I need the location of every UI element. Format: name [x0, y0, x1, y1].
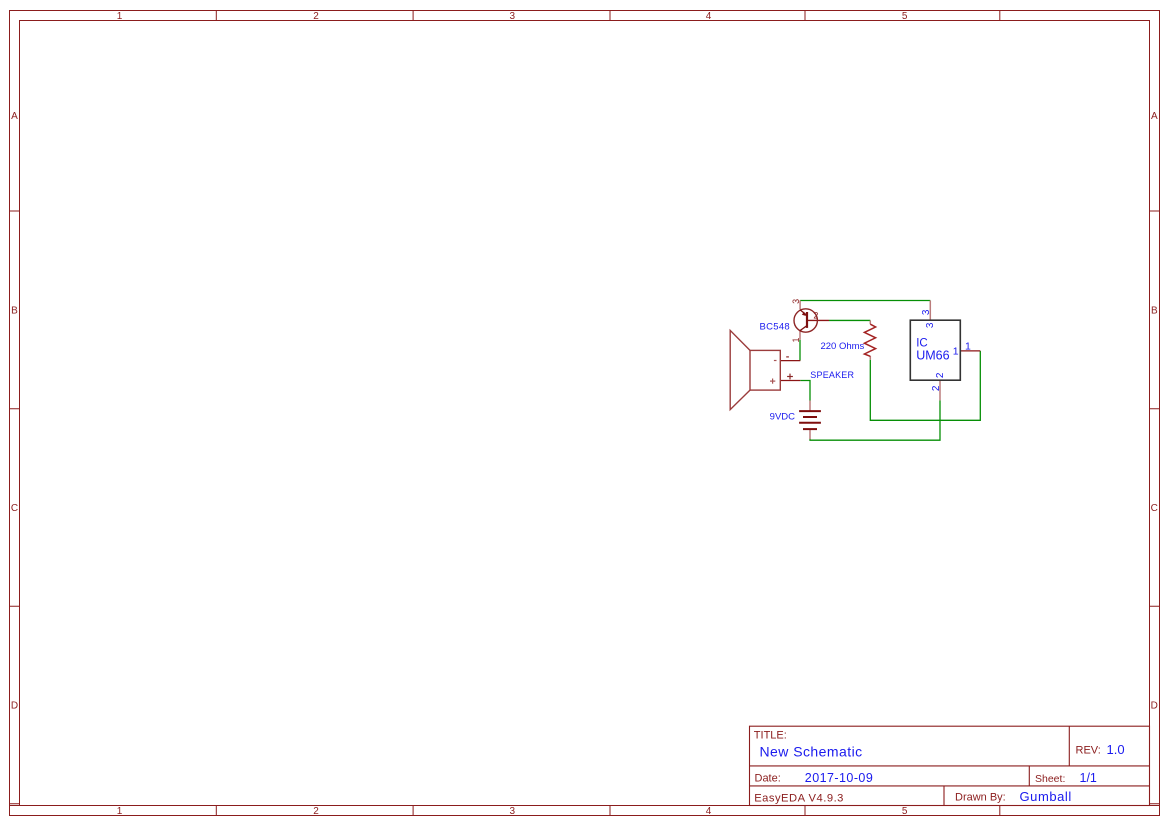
svg-text:1: 1 [117, 806, 123, 817]
svg-text:TITLE:: TITLE: [754, 730, 787, 742]
svg-text:1: 1 [791, 337, 801, 342]
svg-text:1: 1 [953, 345, 959, 357]
svg-text:Sheet:: Sheet: [1035, 773, 1065, 785]
svg-text:UM66: UM66 [916, 349, 949, 363]
svg-text:Date:: Date: [755, 772, 781, 784]
svg-text:REV:: REV: [1076, 744, 1101, 756]
svg-text:9VDC: 9VDC [770, 411, 795, 422]
svg-text:Drawn By:: Drawn By: [955, 792, 1006, 804]
svg-text:3: 3 [791, 299, 801, 304]
svg-text:4: 4 [706, 806, 712, 817]
svg-text:1: 1 [965, 341, 971, 353]
svg-text:3: 3 [510, 11, 516, 22]
svg-text:1: 1 [117, 11, 123, 22]
svg-text:EasyEDA V4.9.3: EasyEDA V4.9.3 [754, 792, 844, 804]
svg-text:C: C [11, 503, 18, 514]
svg-text:A: A [11, 111, 18, 122]
svg-text:IC: IC [916, 337, 928, 349]
svg-text:D: D [1151, 701, 1158, 712]
svg-text:B: B [11, 305, 18, 316]
svg-text:New Schematic: New Schematic [760, 743, 863, 759]
svg-text:2: 2 [813, 310, 818, 320]
svg-text:SPEAKER: SPEAKER [810, 370, 854, 380]
svg-text:4: 4 [706, 11, 712, 22]
svg-text:1.0: 1.0 [1107, 742, 1125, 757]
svg-text:B: B [1151, 305, 1158, 316]
svg-text:3: 3 [925, 322, 936, 328]
svg-text:2: 2 [931, 385, 942, 391]
svg-text:5: 5 [902, 806, 908, 817]
svg-text:1/1: 1/1 [1080, 771, 1097, 785]
svg-text:2: 2 [935, 372, 946, 378]
svg-text:220 Ohms: 220 Ohms [820, 341, 864, 352]
svg-text:A: A [1151, 111, 1158, 122]
svg-text:5: 5 [902, 11, 908, 22]
svg-text:2: 2 [313, 806, 319, 817]
svg-text:3: 3 [510, 806, 516, 817]
svg-text:BC548: BC548 [759, 322, 790, 333]
svg-text:3: 3 [921, 309, 932, 315]
svg-text:2: 2 [313, 11, 319, 22]
svg-text:D: D [11, 701, 18, 712]
svg-text:2017-10-09: 2017-10-09 [805, 771, 873, 785]
svg-text:Gumball: Gumball [1020, 789, 1072, 804]
svg-text:C: C [1151, 503, 1158, 514]
